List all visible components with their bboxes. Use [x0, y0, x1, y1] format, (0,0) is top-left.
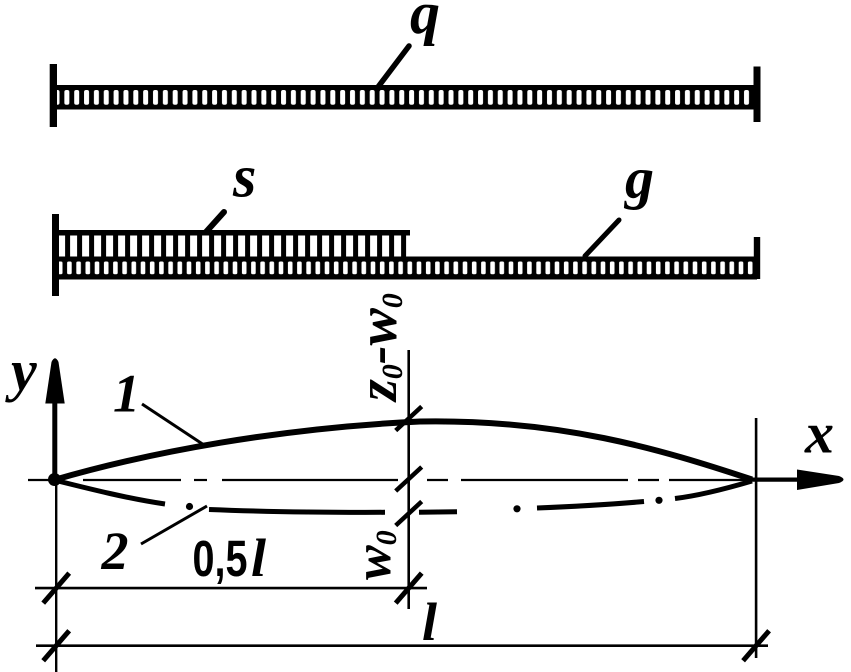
origin dot — [48, 473, 61, 486]
center line (dash-dot axis) — [28, 479, 745, 481]
dimension line 0,5l — [35, 587, 427, 590]
svg-text:l: l — [422, 592, 437, 652]
svg-text:z0-w0: z0-w0 — [347, 293, 409, 403]
extension line left (below origin) — [55, 480, 57, 672]
curve 2 dot a — [186, 503, 193, 510]
dimension line l — [36, 644, 768, 647]
svg-text:0,5: 0,5 — [193, 530, 248, 587]
load g hatched band (full span) — [56, 257, 758, 280]
dim tick right (0,5l) — [396, 573, 422, 603]
tick on curve 1 level — [396, 407, 422, 431]
load s hatched band (tall hatch, left half) — [56, 230, 411, 257]
beam end bar right (s,g) — [754, 237, 760, 279]
curve 1 (deflection curve, solid) — [54, 421, 752, 480]
beam end bar right (q) — [754, 67, 761, 123]
leader line 2 — [141, 506, 207, 544]
svg-text:y: y — [5, 338, 37, 403]
dim tick left (0,5l) — [43, 573, 69, 603]
curve 2 dot b — [513, 505, 520, 512]
leader line q — [378, 46, 409, 87]
extension line right (l) — [755, 418, 758, 658]
beam end bar left (s,g) — [52, 214, 59, 296]
y axis arrowhead — [45, 358, 64, 403]
extension line middle (0,5l) — [407, 350, 410, 609]
x axis arrowhead — [797, 470, 844, 491]
curve 2 (dash-dot curve) — [54, 480, 752, 512]
leader line 1 — [142, 404, 204, 445]
svg-text:2: 2 — [101, 521, 129, 581]
svg-text:q: q — [410, 0, 440, 46]
tick on center line level — [396, 467, 422, 491]
leader line g — [585, 220, 619, 256]
dim tick left (l) — [43, 631, 69, 661]
svg-text:1: 1 — [113, 364, 140, 424]
svg-text:g: g — [623, 146, 654, 211]
y axis shaft — [52, 400, 57, 480]
tick on curve 2 level — [396, 502, 422, 526]
svg-text:w0: w0 — [345, 530, 403, 580]
svg-text:l: l — [251, 528, 266, 588]
leader line s — [206, 212, 224, 232]
curve 2 dot c — [655, 497, 662, 504]
load q hatched band — [52, 85, 757, 110]
x axis shaft — [744, 478, 802, 482]
svg-text:x: x — [804, 400, 834, 465]
beam end bar left (q) — [50, 64, 57, 127]
dim tick right (l) — [743, 631, 769, 661]
svg-text:s: s — [232, 144, 256, 210]
